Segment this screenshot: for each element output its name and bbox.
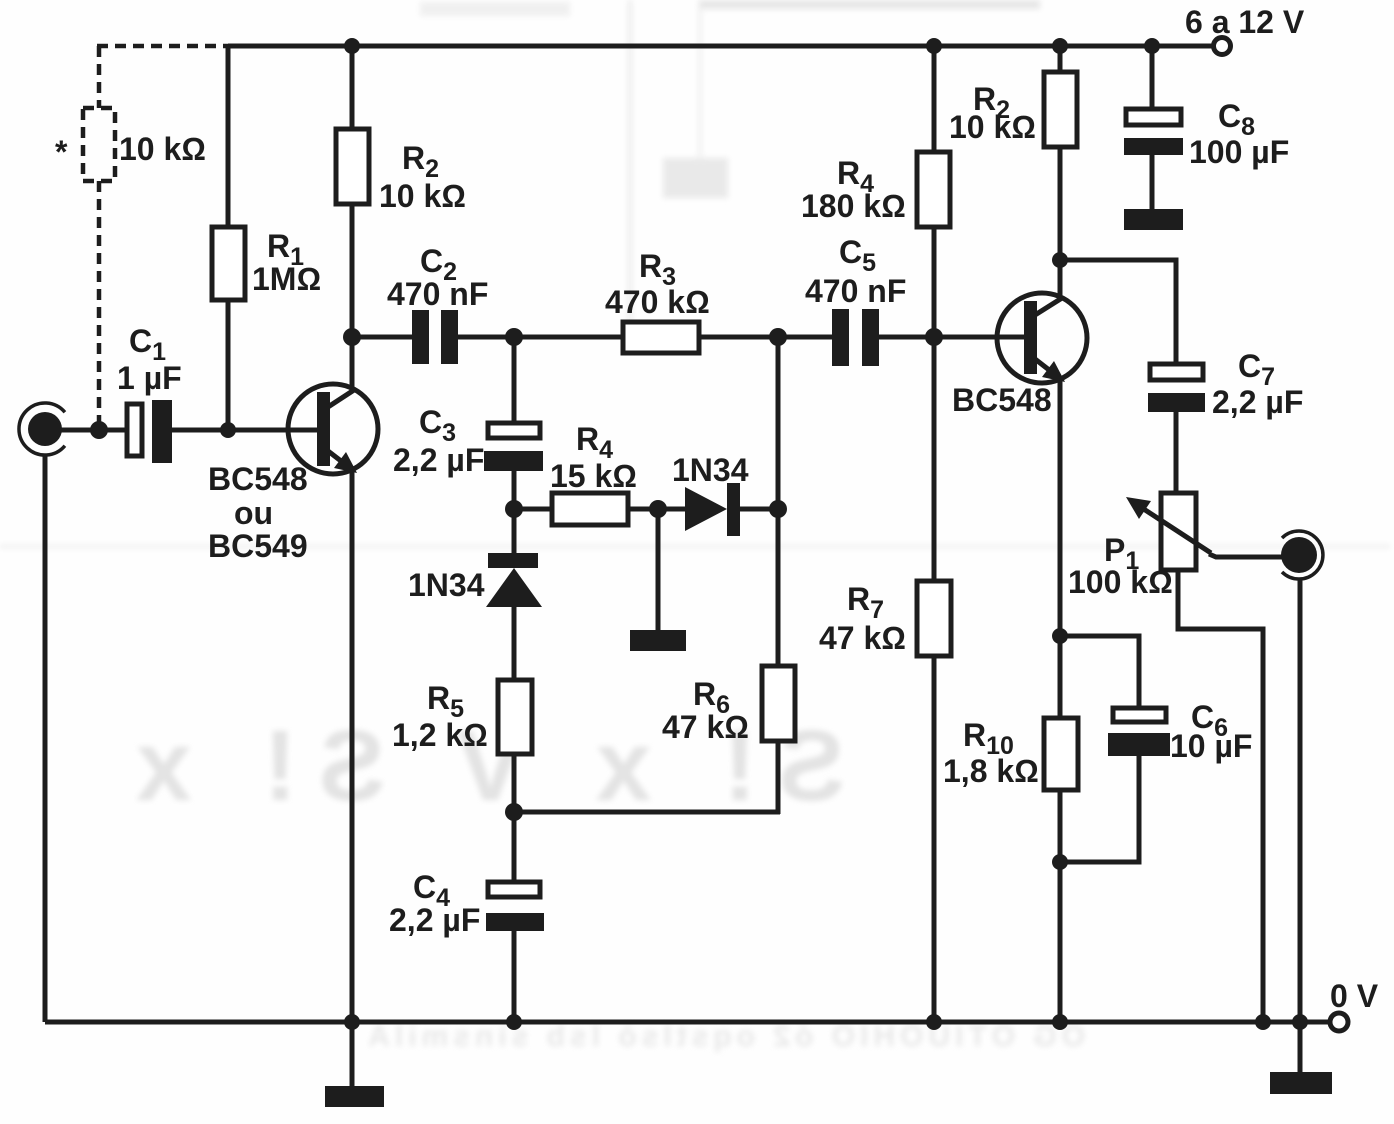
svg-text:BC549: BC549 — [208, 528, 308, 564]
svg-text:ou: ou — [234, 495, 273, 531]
svg-text:10 kΩ: 10 kΩ — [949, 109, 1036, 145]
svg-text:1N34: 1N34 — [672, 452, 749, 488]
svg-text:1N34: 1N34 — [408, 567, 485, 603]
svg-text:6 a 12 V: 6 a 12 V — [1185, 4, 1305, 40]
svg-text:470 kΩ: 470 kΩ — [605, 284, 710, 320]
svg-text:47 kΩ: 47 kΩ — [662, 709, 749, 745]
svg-text:10 kΩ: 10 kΩ — [379, 178, 466, 214]
svg-text:OG OTIUOHIO ó2 oqstlsò lsb sìn: OG OTIUOHIO ó2 oqstlsò lsb sìnsmilA — [363, 1020, 1085, 1053]
svg-text:10 µF: 10 µF — [1170, 728, 1252, 764]
svg-text:180 kΩ: 180 kΩ — [801, 188, 906, 224]
svg-text:1MΩ: 1MΩ — [252, 261, 321, 297]
svg-text:1,2 kΩ: 1,2 kΩ — [392, 717, 488, 753]
svg-text:100 µF: 100 µF — [1189, 134, 1289, 170]
svg-text:470 nF: 470 nF — [387, 276, 488, 312]
svg-text:BC548: BC548 — [952, 382, 1052, 418]
svg-text:0 V: 0 V — [1330, 978, 1379, 1014]
svg-text:BC548: BC548 — [208, 461, 308, 497]
svg-text:*: * — [55, 134, 68, 170]
svg-text:100 kΩ: 100 kΩ — [1068, 564, 1173, 600]
svg-text:2,2 µF: 2,2 µF — [1212, 384, 1303, 420]
svg-text:10 kΩ: 10 kΩ — [119, 131, 206, 167]
svg-text:470 nF: 470 nF — [805, 273, 906, 309]
svg-text:2,2 µF: 2,2 µF — [389, 902, 480, 938]
svg-text:47 kΩ: 47 kΩ — [819, 620, 906, 656]
svg-text:2,2 µF: 2,2 µF — [393, 442, 484, 478]
svg-text:1 µF: 1 µF — [117, 360, 182, 396]
svg-text:15 kΩ: 15 kΩ — [550, 458, 637, 494]
svg-text:1,8 kΩ: 1,8 kΩ — [943, 753, 1039, 789]
